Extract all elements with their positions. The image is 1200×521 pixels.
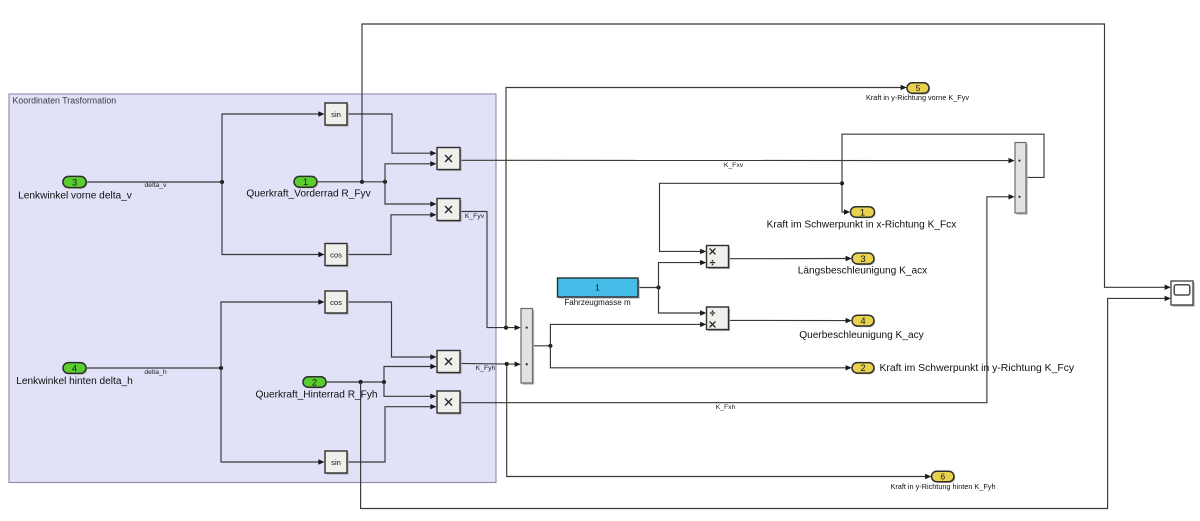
outport Out4 oval (852, 315, 875, 327)
wire R_Fyh branch to product P3 in2 (384, 364, 437, 382)
constant block Fahrzeugmasse m (558, 278, 640, 299)
outport Out6 name (890, 482, 995, 491)
svg-text:Lenkwinkel vorne delta_v: Lenkwinkel vorne delta_v (18, 190, 133, 201)
svg-text:K_Fyv: K_Fyv (465, 213, 485, 220)
wire sin_v output to product P1 in1 (347, 114, 437, 156)
outport Out2 oval (852, 363, 875, 375)
wire K_Fxh from P4 to Add2 in2 (460, 194, 1015, 403)
outport Out4 name (799, 330, 924, 341)
wire m to Divide2 in1 (659, 288, 707, 316)
signal label K_Fyv (465, 213, 485, 220)
outport Out3 name (798, 265, 927, 276)
wire K_Fcy from Add1 (533, 344, 553, 348)
svg-text:1: 1 (303, 177, 308, 188)
svg-text:6: 6 (940, 472, 945, 482)
inport In3 oval (63, 176, 87, 188)
svg-text:1: 1 (860, 207, 865, 218)
inport In4 name (16, 376, 133, 387)
outport Out3 oval (852, 253, 875, 265)
svg-text:Kraft im Schwerpunkt in y-Rich: Kraft im Schwerpunkt in y-Richtung K_Fcy (880, 363, 1075, 374)
svg-text:Lenkwinkel hinten delta_h: Lenkwinkel hinten delta_h (16, 376, 133, 387)
divide block Divide2 (707, 307, 731, 331)
trig block sin_h (325, 451, 349, 475)
svg-text:5: 5 (916, 83, 921, 93)
svg-text:Kraft im Schwerpunkt in x-Rich: Kraft im Schwerpunkt in x-Richtung K_Fcx (767, 219, 957, 230)
outport Out5 oval (907, 83, 930, 95)
wire branch down to cos (222, 182, 325, 257)
svg-text:K_Fyh: K_Fyh (476, 365, 496, 372)
wire R_Fyh to Scope input 2 (around bottom) (361, 296, 1171, 509)
wire cos_h output to product P3 in1 (347, 302, 437, 360)
svg-text:cos: cos (330, 298, 342, 307)
svg-text:Kraft in y-Richtung vorne K_Fy: Kraft in y-Richtung vorne K_Fyv (866, 93, 969, 102)
sum block Add1 (521, 309, 534, 385)
svg-text:sin: sin (331, 458, 341, 467)
svg-text:K_Fxh: K_Fxh (716, 404, 736, 411)
svg-text:2: 2 (860, 363, 865, 374)
inport In4 oval (63, 363, 87, 375)
wire branch down to sin_h (221, 368, 325, 465)
outport Out5 name (866, 93, 969, 102)
wire K_Fcy branch to Divide2 in2 (550, 322, 706, 346)
svg-text:Längsbeschleunigung K_acx: Längsbeschleunigung K_acx (798, 265, 927, 276)
subsystem area Koordinaten Trasformation (9, 94, 496, 483)
wire K_acy from Divide2 to Out4 (729, 318, 852, 323)
product block P3 (437, 351, 462, 375)
signal label delta_v (145, 182, 168, 189)
wire cos_v output to product P2 in2 (347, 212, 437, 254)
svg-text:4: 4 (72, 363, 77, 374)
trig block sin_v (325, 103, 349, 127)
wire K_Fyh branch to Out6 (507, 364, 932, 479)
wire mass m from constant (638, 285, 661, 289)
svg-text:4: 4 (860, 316, 865, 327)
wire K_Fyv branch to Out5 (506, 85, 907, 328)
svg-text:Fahrzeugmasse m: Fahrzeugmasse m (564, 298, 631, 307)
sum block Add2 (1015, 143, 1028, 215)
trig block cos_h (325, 291, 349, 315)
wire K_Fcx branch to Divide1 in1 (660, 183, 843, 254)
outport Out6 oval (932, 471, 956, 483)
inport In1 oval (294, 176, 318, 188)
inport In2 oval (303, 377, 327, 389)
product block P2 (437, 199, 462, 223)
outport Out1 oval (851, 207, 876, 219)
signal label K_Fxv (724, 162, 744, 169)
scope block (1171, 281, 1195, 307)
inport In2 name (255, 389, 377, 400)
inport In3 name (18, 190, 133, 201)
wire K_acx from Divide1 to Out3 (729, 256, 852, 261)
wire K_Fcy branch to Out2 (550, 346, 851, 371)
wire R_Fyv to Scope input 1 (around top) (362, 24, 1171, 290)
signal label K_Fxh (716, 404, 736, 411)
wire R_Fyv from In1 (317, 180, 387, 184)
product block P4 (437, 391, 462, 415)
svg-text:2: 2 (312, 377, 317, 388)
svg-text:sin: sin (331, 110, 341, 119)
outport Out1 name (767, 219, 957, 230)
wire K_Fcx from Add2 to Out1 (840, 134, 1044, 215)
svg-text:Querkraft_Hinterrad R_Fyh: Querkraft_Hinterrad R_Fyh (255, 389, 377, 400)
divide block Divide1 (707, 246, 731, 270)
wire R_Fyh from In2 (326, 380, 386, 384)
svg-text:3: 3 (860, 254, 865, 265)
svg-text:Querbeschleunigung K_acy: Querbeschleunigung K_acy (799, 330, 924, 341)
wire K_Fyv from P2 to Add1 in1 (460, 212, 521, 331)
wire K_Fxv from P1 to Add2 in1 (460, 158, 1015, 163)
outport Out2 name (880, 363, 1075, 374)
svg-text:Koordinaten Trasformation: Koordinaten Trasformation (13, 95, 117, 105)
wire branch up to sin (222, 111, 325, 182)
trig block cos_v (325, 244, 349, 268)
product block P1 (437, 148, 462, 172)
wire R_Fyh branch to product P4 in1 (384, 382, 437, 399)
wire sin_h output to product P4 in2 (347, 404, 437, 462)
svg-text:cos: cos (330, 250, 342, 259)
svg-text:K_Fxv: K_Fxv (724, 162, 744, 169)
signal label delta_h (144, 369, 167, 376)
wire R_Fyv branch to product P2 in1 (385, 182, 437, 207)
svg-text:1: 1 (595, 283, 600, 293)
wire delta_h from In4 to branch (86, 366, 223, 370)
wire R_Fyv branch to product P1 in2 (385, 161, 437, 182)
wire K_Fyh from P3 to Add1 in2 (460, 362, 521, 367)
constant name (564, 298, 631, 307)
svg-text:3: 3 (72, 177, 77, 188)
wire branch up to cos_h (221, 299, 325, 368)
svg-text:delta_h: delta_h (144, 369, 167, 376)
svg-text:Querkraft_Vorderrad R_Fyv: Querkraft_Vorderrad R_Fyv (246, 189, 371, 200)
inport In1 name (246, 189, 371, 200)
wire delta_v from In3 to branch (86, 180, 224, 184)
svg-text:delta_v: delta_v (145, 182, 168, 189)
wire m to Divide1 in2 (659, 260, 707, 288)
svg-text:Kraft in y-Richtung hinten K_F: Kraft in y-Richtung hinten K_Fyh (890, 482, 995, 491)
signal label K_Fyh (476, 365, 496, 372)
